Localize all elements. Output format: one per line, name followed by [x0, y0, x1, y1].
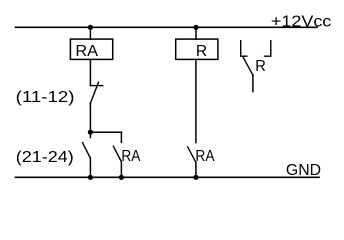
svg-text:R: R [255, 58, 266, 75]
svg-text:(21-24): (21-24) [16, 149, 74, 166]
svg-text:(11-12): (11-12) [16, 89, 75, 106]
svg-text:RA: RA [121, 148, 140, 165]
svg-text:GND: GND [286, 162, 321, 179]
svg-text:RA: RA [75, 43, 98, 60]
svg-text:+12Vcc: +12Vcc [271, 14, 331, 31]
svg-text:RA: RA [195, 148, 214, 165]
svg-text:R: R [196, 43, 207, 60]
